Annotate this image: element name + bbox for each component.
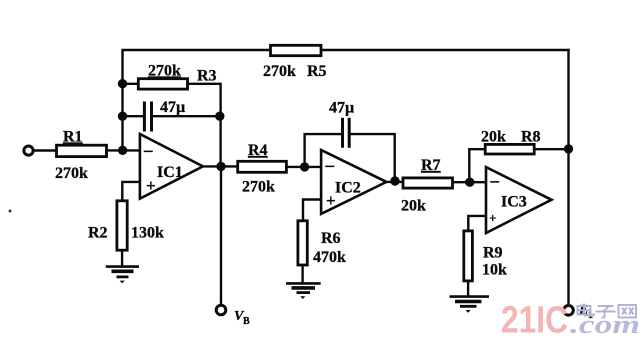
svg-text:–: – [325, 156, 335, 175]
node IC2 output [390, 176, 399, 185]
node IC2 inverting input [300, 162, 309, 171]
node IC3 inverting input [465, 178, 474, 187]
svg-text:470k: 470k [313, 249, 346, 266]
svg-text:R4: R4 [248, 142, 268, 159]
stray dot [9, 210, 12, 213]
wire R3 right to output node [188, 84, 221, 167]
wire R1 to IC1 inverting input [107, 149, 140, 151]
wire R8 right to output bus [534, 148, 568, 150]
wire IC1 output to R4 [203, 165, 238, 167]
capacitor C1 47u [144, 99, 185, 132]
svg-text:+: + [146, 176, 156, 195]
wire C1 left stub [123, 115, 144, 117]
wire R8 left branch [469, 149, 485, 182]
op-amp IC3 [486, 167, 552, 233]
input terminal [24, 146, 33, 155]
svg-text:R3: R3 [197, 68, 217, 85]
node C1 right [215, 112, 224, 121]
wire C2 left branch [305, 134, 342, 167]
resistor R2 130k [88, 201, 164, 250]
resistor R1 270k [55, 129, 107, 183]
watermark 21IC.com logo [501, 300, 640, 342]
svg-text:270k: 270k [55, 165, 88, 182]
wire IC2 output to R7 [386, 181, 403, 183]
svg-text:R2: R2 [88, 225, 108, 242]
ground (R2) [106, 267, 139, 284]
wire R3 left stub [123, 83, 139, 85]
svg-text:R8: R8 [521, 129, 541, 146]
wire IC2 noninverting input [303, 200, 321, 221]
capacitor C2 47u [329, 100, 354, 148]
resistor R9 10k [464, 231, 507, 281]
svg-text:IC3: IC3 [501, 194, 527, 211]
wire C1 right stub [153, 115, 220, 117]
resistor R5 270k [263, 45, 327, 80]
resistor R8 20k [481, 129, 541, 155]
svg-text:20k: 20k [401, 198, 426, 215]
svg-text:270k: 270k [263, 63, 296, 80]
wire top feedback bus [123, 50, 569, 150]
wire IC3 noninverting input [468, 216, 486, 231]
svg-text:130k: 130k [131, 225, 164, 242]
wire IC1 noninverting input [122, 182, 140, 201]
resistor R4 270k [238, 142, 287, 196]
node R8 output bus [564, 144, 573, 153]
op-amp IC1 [140, 134, 203, 199]
svg-text:IC2: IC2 [335, 180, 361, 197]
svg-text:B: B [243, 316, 250, 327]
svg-text:21IC: 21IC [501, 300, 568, 342]
svg-text:R6: R6 [321, 230, 341, 247]
wire R9 to ground [467, 281, 469, 296]
wire R2 to ground [121, 250, 123, 266]
svg-text:R5: R5 [307, 63, 327, 80]
svg-text:R1: R1 [63, 129, 83, 146]
op-amp IC2 [321, 150, 386, 214]
svg-text:270k: 270k [148, 63, 181, 80]
wire C2 right branch [350, 134, 394, 181]
svg-text:R9: R9 [483, 245, 503, 262]
wire input to R1 [33, 149, 57, 151]
svg-text:–: – [490, 171, 500, 190]
svg-text:270k: 270k [242, 179, 275, 196]
ground (R6) [286, 283, 321, 299]
svg-text:20k: 20k [481, 129, 506, 146]
resistor R6 470k [298, 221, 346, 266]
node IC1 output [216, 162, 225, 171]
node R1/feedback junction [118, 146, 127, 155]
svg-text:+: + [489, 211, 496, 226]
label VB [234, 309, 250, 327]
wire R7 to IC3 inverting input [453, 181, 487, 183]
wire R6 to ground [301, 265, 303, 283]
svg-text:R7: R7 [421, 157, 441, 174]
svg-text:47µ: 47µ [160, 99, 185, 116]
wire IC1 output down to VB terminal [220, 166, 222, 305]
ground (R9) [450, 297, 490, 313]
svg-text:IC1: IC1 [157, 164, 183, 181]
resistor R7 20k [401, 157, 453, 215]
terminal VB [216, 305, 226, 315]
svg-text:10k: 10k [482, 262, 507, 279]
resistor R3 270k [138, 63, 216, 90]
svg-text:–: – [143, 141, 153, 160]
wire output bus right vertical [567, 50, 569, 306]
node C1 left [118, 112, 127, 121]
svg-text:47µ: 47µ [329, 100, 354, 117]
wire R4 to IC2 inverting input [286, 166, 321, 168]
label E1 [578, 303, 593, 321]
node R3 left [118, 79, 127, 88]
terminal E1 [564, 306, 574, 316]
